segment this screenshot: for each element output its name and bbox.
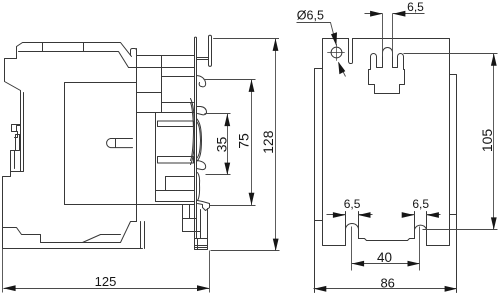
svg-text:125: 125 <box>95 274 117 289</box>
ext line 35 bottom <box>206 174 231 176</box>
arrows dim 86 <box>314 286 457 292</box>
roof segment tick 2 <box>83 43 85 52</box>
cavity front edge <box>155 113 157 202</box>
column line A <box>136 49 138 222</box>
lower terminal divider <box>165 177 167 191</box>
roof inner line <box>19 52 129 68</box>
arrows dim 35 <box>224 114 230 175</box>
bottom claw box <box>195 239 208 250</box>
svg-text:105: 105 <box>479 129 495 153</box>
bottom column line 2 <box>144 222 146 249</box>
lower spring leg <box>198 173 200 201</box>
dim line 75 <box>251 80 253 206</box>
arrow dia upper <box>331 32 337 46</box>
arrows dim 6.5 bottom right <box>402 212 439 218</box>
svg-text:6,5: 6,5 <box>412 197 429 211</box>
ext line 6.5 top b <box>392 14 394 57</box>
clamp bar lower <box>158 157 194 164</box>
terminal top line 3 <box>162 76 195 78</box>
claw mid <box>197 107 207 115</box>
ext line 40 left <box>351 227 353 271</box>
svg-text:128: 128 <box>260 130 276 154</box>
svg-text:6,5: 6,5 <box>407 0 424 14</box>
claw lower <box>197 161 206 170</box>
DIN claw top <box>197 35 212 66</box>
latch lower step <box>11 151 16 172</box>
roof outline <box>17 43 132 59</box>
ext line 128 bottom <box>211 250 280 252</box>
mounting hole crosshair <box>328 45 345 61</box>
svg-text:Ø6,5: Ø6,5 <box>297 9 324 23</box>
dim line 40 <box>352 263 420 265</box>
top crown tab <box>369 48 405 94</box>
lower right line 1 <box>183 218 197 220</box>
bottom rail baseline <box>3 248 143 250</box>
bottom right slot <box>415 212 427 246</box>
body bottom line <box>65 204 195 206</box>
lower terminal line 3 <box>156 201 195 203</box>
body outline <box>323 39 450 246</box>
arrows dim 125 <box>3 285 209 291</box>
top slot <box>349 39 353 64</box>
bottom left slot <box>346 212 359 246</box>
ext line 125 right <box>209 251 211 293</box>
dim line 128 <box>275 39 277 251</box>
arrows dim 6.5 top <box>370 11 405 17</box>
spring curve outer <box>197 119 202 162</box>
right ear <box>450 75 457 293</box>
terminal top line 1 <box>137 55 195 57</box>
arrows dim 6.5 bottom left <box>333 212 371 218</box>
roof segment tick 1 <box>42 43 44 52</box>
svg-text:75: 75 <box>235 133 251 149</box>
bottom center profile <box>359 239 415 241</box>
arrows dim 75 <box>249 80 255 206</box>
lower right vertical 1 <box>182 205 184 232</box>
ext line 6.5 top a <box>382 14 384 57</box>
hook small <box>197 76 206 87</box>
actuator pin <box>107 139 133 148</box>
clamp bar upper <box>158 121 194 127</box>
bottom groove wedge <box>83 235 121 243</box>
arrows dim 40 <box>352 261 420 267</box>
dim line 6.5 bottom left <box>327 214 373 216</box>
actuator pin tick <box>115 139 117 148</box>
terminal divider vertical <box>161 56 163 113</box>
dim line 125 <box>4 288 210 290</box>
dim line 105 <box>493 54 495 230</box>
clamp curve outer <box>191 99 195 165</box>
ext line 75 bottom <box>210 205 256 207</box>
ext line 40 right <box>419 227 421 271</box>
lower right vertical 2 <box>189 205 191 219</box>
dim line 6.5 bottom right <box>403 214 441 216</box>
dia leader shelf <box>297 23 337 46</box>
terminal line y112 <box>137 112 195 114</box>
ext line 105 bottom <box>423 229 498 231</box>
dim line 86 <box>314 288 457 290</box>
arrow dia lower <box>338 62 345 75</box>
svg-text:35: 35 <box>214 137 230 153</box>
foot flare <box>198 201 210 211</box>
mounting plate <box>195 37 197 238</box>
bottom column line 1 <box>140 222 142 249</box>
dim line 6.5 top <box>365 13 425 15</box>
lower right line 2 <box>183 231 201 233</box>
terminal top line 2 <box>129 67 195 69</box>
clamp curve inner <box>191 103 194 161</box>
latch detail box 3 <box>16 135 20 151</box>
latch detail box 1 <box>12 125 21 132</box>
left side upper profile <box>5 59 21 172</box>
cavity top line <box>162 102 194 104</box>
ext line 125 left <box>2 249 4 293</box>
lower terminal line 2 <box>156 190 195 192</box>
dim line 35 <box>227 114 229 175</box>
spring curve inner <box>197 122 201 159</box>
svg-text:86: 86 <box>380 276 394 291</box>
dia lower arrow tail <box>339 63 346 77</box>
ext line 75 top <box>204 79 256 81</box>
bottom post <box>201 209 208 239</box>
bottom profile <box>3 222 137 243</box>
terminal mid line <box>137 92 162 94</box>
ext line 128 top <box>213 38 279 40</box>
ext line 35 top <box>205 113 231 115</box>
front face rectangle <box>65 83 137 205</box>
lower terminal line 1 <box>166 176 195 178</box>
latch detail box 2 <box>15 132 18 138</box>
left strip inner edge <box>3 93 24 249</box>
coil tab <box>130 49 136 56</box>
left ear <box>315 69 323 293</box>
ext line 105 top <box>404 53 498 55</box>
mounting hole circle <box>331 47 342 58</box>
svg-text:40: 40 <box>377 250 392 265</box>
svg-text:6,5: 6,5 <box>344 197 361 211</box>
arrows dim 128 <box>273 39 279 252</box>
arrows dim 105 <box>491 53 497 229</box>
